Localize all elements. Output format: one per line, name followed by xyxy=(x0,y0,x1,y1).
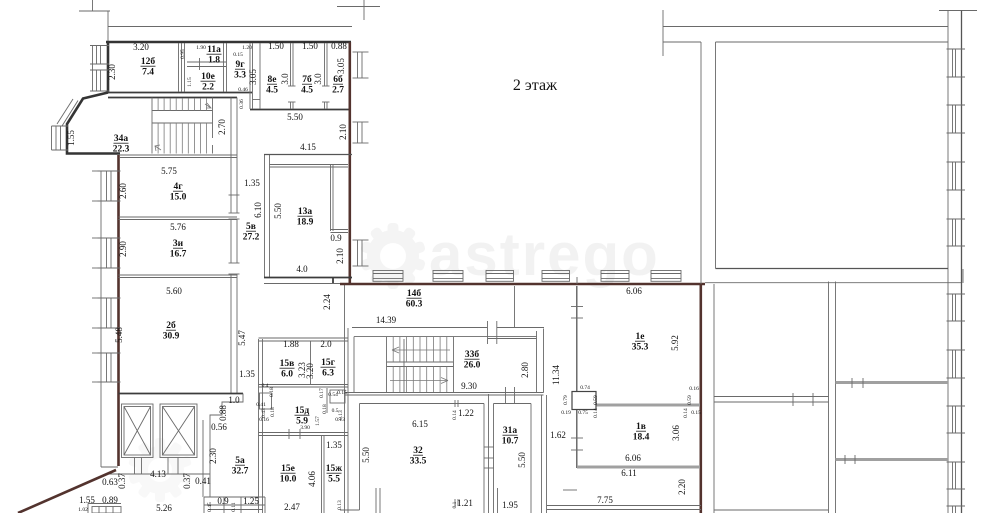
svg-text:5.60: 5.60 xyxy=(166,286,182,296)
svg-text:0.4: 0.4 xyxy=(262,383,269,389)
svg-text:5.50: 5.50 xyxy=(273,203,283,219)
svg-text:0.37: 0.37 xyxy=(182,473,192,489)
svg-text:3.20: 3.20 xyxy=(305,363,315,379)
svg-text:6.15: 6.15 xyxy=(412,419,428,429)
svg-text:2.24: 2.24 xyxy=(322,294,332,310)
svg-text:12б: 12б xyxy=(141,56,156,67)
svg-text:0.15: 0.15 xyxy=(691,410,701,416)
svg-text:0.41: 0.41 xyxy=(195,476,211,486)
svg-text:0.89: 0.89 xyxy=(102,495,118,505)
svg-text:2.90: 2.90 xyxy=(118,241,128,257)
svg-text:5.5: 5.5 xyxy=(328,475,340,485)
svg-text:2б: 2б xyxy=(166,320,176,331)
svg-text:1.95: 1.95 xyxy=(502,500,518,510)
svg-text:15в: 15в xyxy=(280,359,295,369)
svg-text:3.06: 3.06 xyxy=(671,425,681,441)
svg-text:0.13: 0.13 xyxy=(335,417,345,423)
svg-text:1.8: 1.8 xyxy=(208,56,220,66)
svg-text:22.3: 22.3 xyxy=(113,145,130,155)
svg-text:1.57: 1.57 xyxy=(315,416,321,426)
svg-text:0.63: 0.63 xyxy=(102,477,118,487)
svg-text:0.14: 0.14 xyxy=(593,408,599,418)
svg-text:6.11: 6.11 xyxy=(621,468,636,478)
svg-text:5.75: 5.75 xyxy=(161,166,177,176)
svg-text:1.25: 1.25 xyxy=(243,496,259,506)
svg-text:1.90: 1.90 xyxy=(196,45,206,51)
svg-text:1.35: 1.35 xyxy=(326,440,342,450)
svg-text:6б: 6б xyxy=(333,74,343,85)
svg-text:0.18: 0.18 xyxy=(269,387,275,397)
svg-text:0.41: 0.41 xyxy=(256,402,266,408)
svg-text:27.2: 27.2 xyxy=(243,233,260,243)
svg-text:5.48: 5.48 xyxy=(114,327,124,343)
svg-text:5.26: 5.26 xyxy=(156,503,172,513)
svg-text:0.14: 0.14 xyxy=(452,410,458,420)
svg-text:7б: 7б xyxy=(302,74,312,85)
svg-text:2.10: 2.10 xyxy=(338,124,348,140)
svg-text:1.0: 1.0 xyxy=(228,395,240,405)
svg-text:30.9: 30.9 xyxy=(163,332,180,342)
svg-text:3.3: 3.3 xyxy=(234,71,246,81)
svg-text:2.0: 2.0 xyxy=(320,339,332,349)
svg-text:3.20: 3.20 xyxy=(133,42,149,52)
svg-text:0.13: 0.13 xyxy=(337,500,343,510)
svg-text:2.10: 2.10 xyxy=(335,248,345,264)
svg-text:15ж: 15ж xyxy=(326,464,343,474)
svg-text:1.20: 1.20 xyxy=(242,45,252,51)
svg-text:0.95: 0.95 xyxy=(180,49,186,59)
svg-text:5.50: 5.50 xyxy=(517,452,527,468)
svg-text:4.13: 4.13 xyxy=(150,469,166,479)
svg-text:2 этаж: 2 этаж xyxy=(513,77,558,94)
svg-text:60.3: 60.3 xyxy=(406,300,423,310)
svg-text:1.22: 1.22 xyxy=(458,408,474,418)
svg-text:3.0: 3.0 xyxy=(280,73,290,85)
svg-text:3и: 3и xyxy=(173,239,184,249)
svg-text:0.75: 0.75 xyxy=(578,410,588,416)
svg-text:0.59: 0.59 xyxy=(687,395,693,405)
svg-text:11.34: 11.34 xyxy=(551,365,561,385)
svg-text:0.9: 0.9 xyxy=(330,233,342,243)
svg-text:5в: 5в xyxy=(246,222,256,232)
svg-text:1.50: 1.50 xyxy=(268,41,284,51)
svg-text:0.17: 0.17 xyxy=(319,388,325,398)
svg-text:2.60: 2.60 xyxy=(118,183,128,199)
svg-text:6.0: 6.0 xyxy=(281,370,293,380)
svg-text:0.36: 0.36 xyxy=(239,99,245,109)
svg-text:3.05: 3.05 xyxy=(336,58,346,74)
svg-text:1в: 1в xyxy=(636,422,646,432)
svg-text:2.80: 2.80 xyxy=(520,362,530,378)
svg-text:4.5: 4.5 xyxy=(301,86,313,96)
svg-text:1.02: 1.02 xyxy=(78,507,88,513)
svg-text:10.7: 10.7 xyxy=(502,437,519,447)
svg-text:26.0: 26.0 xyxy=(464,361,481,371)
svg-text:1.35: 1.35 xyxy=(239,369,255,379)
svg-text:35.3: 35.3 xyxy=(632,343,649,353)
svg-text:15е: 15е xyxy=(281,464,295,474)
svg-text:3.90: 3.90 xyxy=(300,425,310,431)
svg-text:0.1: 0.1 xyxy=(452,501,458,508)
svg-text:4г: 4г xyxy=(173,182,183,192)
svg-text:2.70: 2.70 xyxy=(217,119,227,135)
svg-text:9г: 9г xyxy=(235,60,245,70)
svg-text:1е: 1е xyxy=(636,332,645,342)
svg-text:7.4: 7.4 xyxy=(142,68,154,78)
svg-text:33б: 33б xyxy=(465,349,480,360)
svg-text:6.06: 6.06 xyxy=(625,453,641,463)
svg-text:31а: 31а xyxy=(503,426,518,436)
svg-text:14.39: 14.39 xyxy=(376,315,397,325)
svg-text:3.0: 3.0 xyxy=(313,73,323,85)
svg-text:14б: 14б xyxy=(407,288,422,299)
svg-text:1.62: 1.62 xyxy=(550,430,566,440)
svg-text:6.10: 6.10 xyxy=(253,202,263,218)
svg-text:2.30: 2.30 xyxy=(107,64,117,80)
svg-text:2.2: 2.2 xyxy=(202,83,214,93)
svg-text:0.14: 0.14 xyxy=(683,408,689,418)
svg-text:5.50: 5.50 xyxy=(361,447,371,463)
svg-text:32.7: 32.7 xyxy=(232,467,249,477)
svg-text:1.55: 1.55 xyxy=(66,130,76,146)
svg-text:0.19: 0.19 xyxy=(561,410,571,416)
svg-text:6.3: 6.3 xyxy=(322,369,334,379)
svg-text:18.4: 18.4 xyxy=(633,433,650,443)
svg-text:32: 32 xyxy=(413,446,423,456)
svg-text:2.7: 2.7 xyxy=(332,86,344,96)
svg-text:4.0: 4.0 xyxy=(296,264,308,274)
svg-text:4.5: 4.5 xyxy=(266,86,278,96)
svg-text:7.75: 7.75 xyxy=(597,495,613,505)
svg-text:2.20: 2.20 xyxy=(677,479,687,495)
svg-text:10е: 10е xyxy=(201,72,215,82)
svg-text:33.5: 33.5 xyxy=(410,457,427,467)
svg-text:34а: 34а xyxy=(114,134,129,144)
svg-text:4.06: 4.06 xyxy=(307,471,317,487)
svg-text:15.0: 15.0 xyxy=(170,193,187,203)
svg-text:11а: 11а xyxy=(207,45,221,55)
svg-text:0.15: 0.15 xyxy=(337,390,347,396)
svg-text:8е: 8е xyxy=(268,75,277,85)
svg-text:16.7: 16.7 xyxy=(170,250,187,260)
svg-text:6.06: 6.06 xyxy=(626,286,642,296)
svg-text:18.9: 18.9 xyxy=(297,218,314,228)
svg-text:1.88: 1.88 xyxy=(283,339,299,349)
svg-text:4.15: 4.15 xyxy=(300,142,316,152)
svg-text:0.37: 0.37 xyxy=(117,473,127,489)
svg-text:0.11: 0.11 xyxy=(231,502,237,512)
svg-text:10.0: 10.0 xyxy=(280,475,297,485)
svg-text:0.56: 0.56 xyxy=(211,422,227,432)
svg-text:2.30: 2.30 xyxy=(208,448,218,464)
svg-text:1.35: 1.35 xyxy=(244,178,260,188)
svg-text:5.47: 5.47 xyxy=(237,330,247,346)
svg-text:0.18: 0.18 xyxy=(270,407,276,417)
svg-text:15д: 15д xyxy=(295,406,310,416)
svg-text:0.88: 0.88 xyxy=(218,405,228,421)
svg-text:15г: 15г xyxy=(321,358,336,368)
svg-text:3.05: 3.05 xyxy=(248,69,258,85)
svg-text:5.92: 5.92 xyxy=(670,335,680,351)
svg-text:0.15: 0.15 xyxy=(233,52,243,58)
svg-text:0.88: 0.88 xyxy=(331,41,347,51)
svg-text:5.76: 5.76 xyxy=(170,222,186,232)
svg-text:1.15: 1.15 xyxy=(187,77,193,87)
svg-text:2.47: 2.47 xyxy=(284,502,300,512)
svg-text:5а: 5а xyxy=(235,456,245,466)
svg-text:0.16: 0.16 xyxy=(689,386,699,392)
svg-text:0.45: 0.45 xyxy=(207,502,213,512)
svg-text:0.59: 0.59 xyxy=(593,395,599,405)
svg-text:0.79: 0.79 xyxy=(563,395,569,405)
svg-text:0.16: 0.16 xyxy=(259,417,269,423)
svg-text:1.21: 1.21 xyxy=(457,498,473,508)
svg-text:5.50: 5.50 xyxy=(287,112,303,122)
svg-text:0.74: 0.74 xyxy=(580,385,590,391)
svg-text:13а: 13а xyxy=(298,207,313,217)
svg-text:0.18: 0.18 xyxy=(322,404,328,414)
svg-text:1.50: 1.50 xyxy=(302,41,318,51)
svg-text:9.30: 9.30 xyxy=(461,381,477,391)
svg-text:0.9: 0.9 xyxy=(217,496,229,506)
svg-text:1.55: 1.55 xyxy=(79,495,95,505)
svg-text:0.46: 0.46 xyxy=(238,87,248,93)
